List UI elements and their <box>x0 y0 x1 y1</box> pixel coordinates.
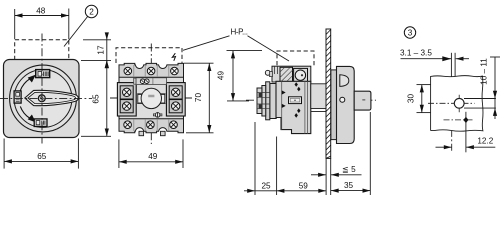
front view dial inner circle <box>14 70 72 128</box>
dimension 12.2 <box>436 136 496 149</box>
side view main body <box>276 81 311 133</box>
knob shaft <box>354 91 371 110</box>
slot centerline <box>451 89 453 153</box>
svg-text:59: 59 <box>299 181 309 190</box>
rear view center shaft opening <box>137 88 165 108</box>
rear view bottom strip screw right <box>170 121 178 129</box>
side view dashed outline <box>277 51 314 65</box>
leader hook mark <box>172 53 175 61</box>
side view terminal stack <box>257 82 276 120</box>
front view left position label <box>14 91 21 103</box>
rear view top terminal strip <box>119 63 184 77</box>
svg-text:H-P...: H-P... <box>231 28 248 37</box>
svg-text:49: 49 <box>148 152 158 161</box>
rear view horizontal centerline <box>110 97 193 99</box>
front view bottom position label <box>34 119 47 127</box>
panel extension lines <box>326 158 331 195</box>
detail hole <box>454 98 464 108</box>
hole tangent extension lines <box>464 99 496 109</box>
svg-text:35: 35 <box>344 181 354 190</box>
knob lever detail <box>340 75 349 87</box>
front view top position label <box>36 70 50 78</box>
svg-text:3.1 – 3.5: 3.1 – 3.5 <box>400 48 432 57</box>
front view handle <box>25 90 79 105</box>
rear view top strip screw left <box>124 67 132 75</box>
front view rotation arrow lower <box>20 106 36 122</box>
side view body diamond marks <box>282 82 301 118</box>
dimension 49 rear <box>119 139 183 168</box>
rear view top strip screw center <box>147 67 155 75</box>
front view handle hub <box>38 95 45 102</box>
rear view bottom strip screw center <box>147 121 155 129</box>
rear view right terminal block <box>166 83 185 116</box>
rear view bottom strip screw left <box>124 121 132 129</box>
dimension 49 side <box>217 51 262 101</box>
dimension 48 <box>15 6 69 39</box>
panel slot section <box>450 53 455 87</box>
side view top clamp hole <box>294 68 308 82</box>
label H-P with leaders <box>183 28 289 61</box>
rear view left terminal block <box>117 83 136 116</box>
dimension 65 vertical <box>81 60 111 136</box>
detail second hole mark (diamond) <box>444 112 475 153</box>
dimension 17 <box>83 32 111 67</box>
front view vertical centerline <box>41 34 43 144</box>
rear view bottom terminal strip <box>119 119 184 136</box>
side view top clamp screw (hatched) <box>280 67 293 82</box>
knob screw hole <box>340 97 345 102</box>
svg-text:49: 49 <box>217 71 226 81</box>
dimension 30 <box>407 85 431 113</box>
rear view top strip screw right <box>171 67 179 75</box>
svg-text:3: 3 <box>408 29 413 38</box>
svg-text:48: 48 <box>36 6 46 15</box>
dimension 65 horizontal <box>4 139 78 169</box>
front view dial outer circle <box>10 65 77 132</box>
mounting panel (hatched) <box>326 29 331 158</box>
side view shaft neck <box>311 84 326 112</box>
dimension 10 - 11 <box>480 57 500 119</box>
svg-text:25: 25 <box>261 181 271 190</box>
side view terminal screws <box>259 93 263 109</box>
rear view upper center screw <box>134 78 167 85</box>
svg-text:2: 2 <box>89 8 94 17</box>
svg-text:17: 17 <box>97 45 106 55</box>
balloon 3 <box>404 27 415 38</box>
rear view lower center screw <box>153 113 162 118</box>
side view top clamp base <box>272 66 311 82</box>
svg-text:30: 30 <box>407 94 416 104</box>
svg-text:65: 65 <box>37 152 47 161</box>
front view rotation arrow upper <box>20 75 36 91</box>
side view top clamp left screw <box>265 70 272 76</box>
detail hole crosshair <box>428 95 475 113</box>
dimension 70 <box>184 63 214 133</box>
svg-text:10 – 11: 10 – 11 <box>480 58 489 85</box>
front view horizontal centerline <box>0 97 92 99</box>
side view horizontal centerline <box>246 99 376 101</box>
knob body <box>337 66 355 143</box>
rear view dashed outline <box>116 48 182 63</box>
rear view vertical centerline <box>150 44 152 145</box>
side view body window <box>289 97 302 104</box>
dimension panel thickness max 5 <box>311 165 362 177</box>
knob flange <box>331 70 337 140</box>
balloon 2 <box>64 5 98 46</box>
dimension 35 <box>331 112 370 195</box>
dimension 3.1 - 3.5 <box>400 48 469 61</box>
svg-text:70: 70 <box>194 93 203 103</box>
svg-text:≦ 5: ≦ 5 <box>342 165 356 174</box>
svg-text:12.2: 12.2 <box>477 136 493 145</box>
detail plate outline <box>431 76 483 132</box>
svg-text:65: 65 <box>92 94 101 104</box>
dimension 25 59 <box>244 122 326 195</box>
rear view body middle section <box>119 76 184 121</box>
dashed escutcheon outline <box>15 40 69 60</box>
front view mounting plate <box>4 60 80 138</box>
